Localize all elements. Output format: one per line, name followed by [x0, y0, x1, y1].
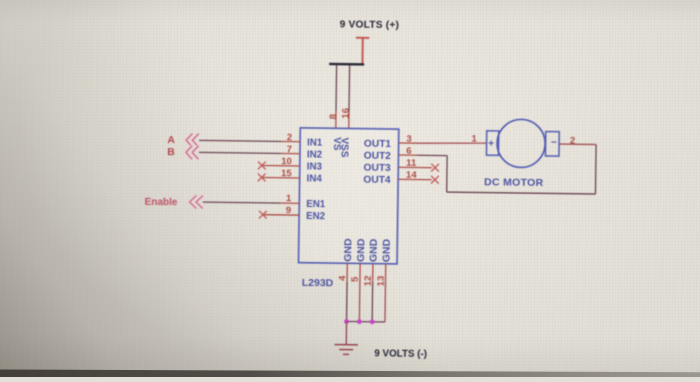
ground symbol: [334, 345, 358, 355]
wire A to IN1: [199, 140, 281, 141]
port symbol Enable: [190, 195, 203, 208]
motor plus sign: [488, 140, 493, 145]
no-connect X pin 11: [431, 164, 439, 172]
wire B to IN2: [199, 152, 281, 153]
pin stub 13 (GND): [384, 264, 386, 283]
pin stub 12 (GND): [372, 264, 374, 283]
wire motor return bottom: [447, 192, 596, 194]
wire GND pin13 down: [384, 282, 387, 321]
motor M1 terminal + box: [486, 131, 498, 156]
wire motor return up: [594, 145, 597, 194]
wire GND pin12 down: [371, 282, 374, 321]
wire GND pin4 down: [346, 282, 349, 321]
motor M1 terminal - box: [545, 132, 559, 157]
junction dot 1: [344, 319, 349, 324]
pin stub 14 (n.c.): [398, 178, 432, 180]
power rail bar: [329, 63, 364, 66]
wire to ground symbol: [345, 321, 347, 343]
port symbol A: [186, 133, 199, 147]
no-connect X pin 15: [258, 173, 266, 181]
no-connect X pin 10: [258, 161, 266, 169]
wire motor - to corner: [559, 143, 596, 145]
pin stub 4 (GND): [346, 263, 348, 282]
motor minus sign: [551, 141, 556, 143]
wire Enable to EN1: [203, 202, 280, 203]
power port symbol +9V: [356, 38, 370, 64]
pin stub 10 (n.c.): [262, 164, 299, 166]
wire GND junction bar: [347, 320, 385, 323]
pin stub 1: [280, 202, 299, 204]
no-connect X pin 9: [259, 211, 267, 219]
pin stub 3: [399, 142, 418, 144]
motor M1 body circle: [497, 119, 546, 168]
pin stub 6: [398, 154, 417, 156]
pin stub 16: [348, 111, 350, 128]
wire VSS (pin 16) vertical: [348, 65, 351, 110]
pin stub 2: [281, 140, 300, 142]
pin stub 9 (n.c.): [263, 214, 299, 216]
pin stub 11 (n.c.): [398, 166, 432, 168]
wire VS (pin 8) vertical: [335, 65, 338, 110]
pin stub 5 (GND): [359, 263, 361, 282]
no-connect X pin 14: [431, 176, 439, 184]
wire OUT2 run down: [446, 156, 448, 192]
pin stub 15 (n.c.): [262, 176, 299, 178]
wire OUT1 to motor +: [418, 142, 487, 144]
pin stub 7: [281, 152, 300, 154]
wire GND pin5 down: [358, 282, 361, 321]
junction dot 3: [370, 319, 375, 324]
junction dot 2: [357, 319, 362, 324]
wire OUT2 run right: [417, 154, 447, 156]
pin stub 8: [335, 111, 337, 128]
op IC U1 L293D body: [299, 128, 399, 264]
port symbol B: [186, 146, 199, 160]
